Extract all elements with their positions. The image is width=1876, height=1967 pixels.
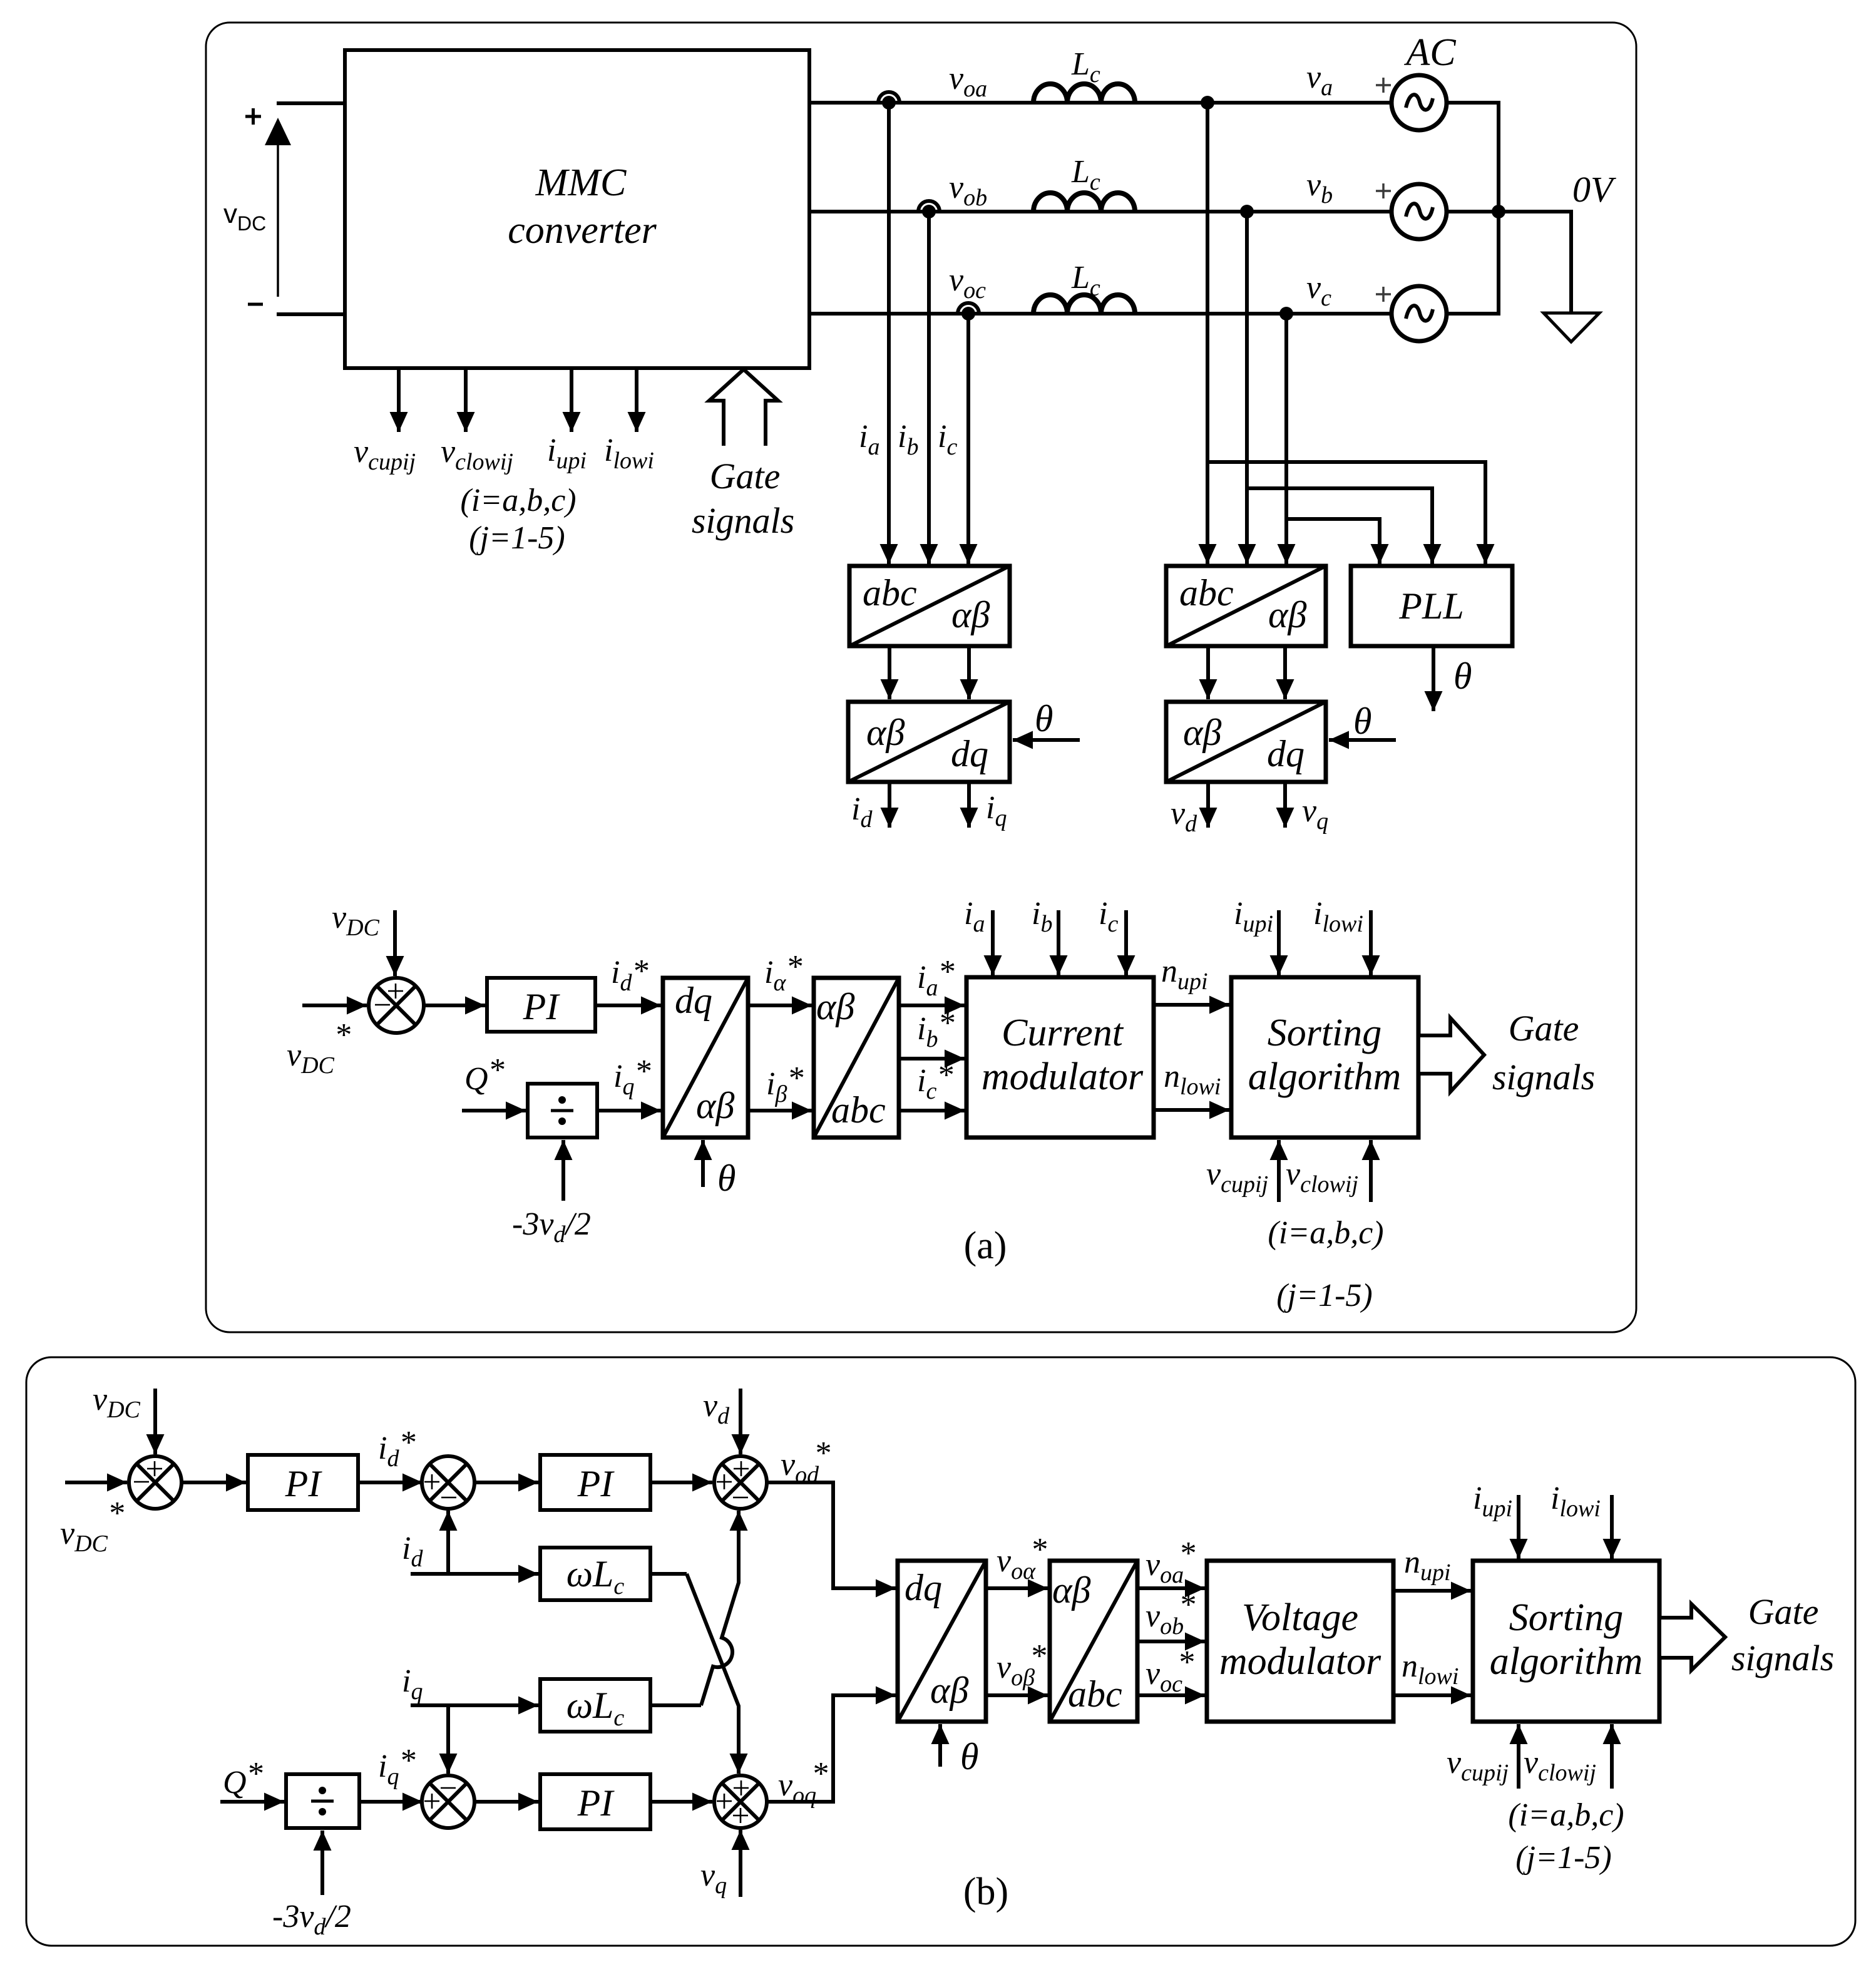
MMC output arrow iupi	[570, 368, 573, 432]
block PI b3	[540, 1774, 650, 1829]
svg-text:θ: θ	[1035, 698, 1053, 739]
wire sum to PI b1	[182, 1481, 246, 1484]
panel (b) border	[26, 1357, 1855, 1946]
wire B3 to dq b	[767, 1482, 870, 1588]
node bus B	[1492, 205, 1505, 218]
svg-text:(i=a,b,c): (i=a,b,c)	[1268, 1215, 1383, 1251]
svg-text:-3vd/2: -3vd/2	[512, 1206, 591, 1248]
wire vc to PLL	[1286, 519, 1380, 529]
wire ic into CM	[1124, 910, 1128, 975]
wire -3vd2 b	[320, 1831, 324, 1895]
wire vobetaref	[986, 1693, 1048, 1697]
wire ibref a	[899, 1057, 965, 1061]
plus sign source C	[1376, 287, 1391, 302]
svg-text:PI: PI	[285, 1463, 323, 1504]
svg-text:αβ: αβ	[816, 986, 854, 1027]
MMC output arrow vcupij	[397, 368, 401, 432]
MMC output arrow ilowi	[635, 368, 638, 432]
wire vobref	[1137, 1640, 1205, 1643]
svg-text:Voltage: Voltage	[1242, 1596, 1358, 1639]
svg-text:αβ: αβ	[930, 1670, 968, 1711]
wire vq into B4	[739, 1830, 742, 1897]
wire ib sense	[927, 212, 931, 564]
svg-text:Sorting: Sorting	[1268, 1012, 1382, 1054]
svg-text:αβ: αβ	[866, 712, 905, 753]
summing junction B2	[422, 1456, 474, 1509]
wire ib into CM	[1057, 910, 1060, 975]
svg-text:θ: θ	[960, 1736, 978, 1777]
block PLL	[1351, 566, 1512, 646]
wire ilowi into SA b	[1610, 1495, 1614, 1559]
svg-text:abc: abc	[1068, 1673, 1122, 1715]
MMC output arrow vclowij	[464, 368, 468, 432]
summing junction B3	[714, 1456, 767, 1509]
wire source B to bus	[1447, 210, 1499, 213]
svg-text:Gate: Gate	[1748, 1591, 1819, 1632]
svg-text:θ: θ	[1353, 701, 1371, 742]
wire wLc1 cross to B4	[650, 1572, 687, 1576]
wire Qref b	[220, 1800, 284, 1804]
svg-text:αβ: αβ	[696, 1085, 734, 1126]
wire ic sense	[966, 314, 970, 564]
svg-text:signals: signals	[1731, 1638, 1834, 1678]
gate signals block arrow b	[1659, 1604, 1725, 1670]
svg-text:signals: signals	[692, 500, 794, 541]
wire nupi b	[1393, 1589, 1471, 1593]
panel (a) border	[206, 23, 1636, 1332]
wire vclowij into SA a	[1369, 1140, 1373, 1202]
wire theta into ab-dq left	[1013, 738, 1080, 742]
block PI b2	[540, 1455, 650, 1510]
wire ilowi into SA a	[1369, 910, 1373, 975]
wire va sense	[1206, 103, 1209, 564]
wire iq down into B5	[446, 1705, 450, 1774]
wire vDCref into sum b1	[65, 1481, 127, 1484]
wire B5 to PI3	[474, 1800, 538, 1804]
wire iqref a	[597, 1109, 661, 1112]
svg-text:αβ: αβ	[1183, 712, 1221, 753]
wire voalpharef	[986, 1586, 1048, 1590]
block dq-ab b	[898, 1561, 986, 1722]
block PI a	[487, 978, 595, 1032]
block divide a	[528, 1084, 597, 1138]
node phase A	[1201, 96, 1214, 110]
node phase B	[1240, 205, 1254, 218]
current sensor phase C	[958, 303, 979, 321]
svg-text:(i=a,b,c): (i=a,b,c)	[1508, 1797, 1624, 1833]
wire theta into dq b	[938, 1724, 942, 1767]
wire DC plus	[277, 101, 345, 105]
svg-text:(j=1-5): (j=1-5)	[469, 520, 565, 556]
wire iupi into SA b	[1517, 1495, 1520, 1559]
wire phase A	[809, 101, 1392, 105]
gate signals block arrow a	[1418, 1018, 1484, 1092]
wire PLL theta out	[1432, 646, 1435, 711]
wire nupi a	[1154, 1003, 1229, 1007]
svg-text:θ: θ	[717, 1158, 736, 1199]
svg-text:PI: PI	[523, 986, 561, 1027]
block wLc1	[540, 1548, 650, 1600]
wire id out	[888, 782, 891, 828]
wire id up into B2	[446, 1511, 450, 1574]
wire vq out	[1283, 782, 1287, 828]
svg-text:(i=a,b,c): (i=a,b,c)	[460, 483, 576, 518]
plus sign source A	[1376, 78, 1391, 93]
svg-text:-3vd/2: -3vd/2	[272, 1899, 351, 1940]
svg-text:Gate: Gate	[710, 456, 781, 496]
plus sign DC	[245, 108, 261, 125]
block sorting algorithm b	[1473, 1561, 1659, 1722]
wire Qref a	[462, 1109, 526, 1112]
wire sum to PI a	[424, 1004, 485, 1007]
svg-text:(a): (a)	[964, 1225, 1007, 1267]
svg-text:abc: abc	[831, 1089, 886, 1131]
wire ibeta down	[967, 646, 971, 699]
block ab-abc a	[814, 978, 899, 1138]
svg-text:abc: abc	[1179, 572, 1234, 614]
AC source vc	[1392, 286, 1447, 341]
wire iq out	[967, 782, 971, 828]
wire voaref	[1137, 1586, 1205, 1590]
wire phase B	[809, 210, 1392, 213]
svg-text:dq: dq	[951, 733, 988, 774]
block wLc2	[540, 1679, 650, 1732]
wire vc sense	[1284, 314, 1288, 564]
wire vb to PLL	[1247, 488, 1432, 529]
block ab-abc b	[1050, 1561, 1137, 1722]
summing junction B4	[714, 1775, 767, 1828]
wire ialpha down	[888, 646, 891, 699]
wire nlowi b	[1393, 1693, 1471, 1697]
wire DC minus	[277, 312, 345, 316]
wire iupi into SA a	[1277, 910, 1281, 975]
wire PI3 to B4	[650, 1800, 712, 1804]
plus sign source B	[1376, 183, 1391, 198]
wire idref b	[358, 1481, 423, 1484]
wire vd out	[1206, 782, 1210, 828]
wire theta into dq-ab a	[701, 1140, 705, 1187]
svg-text:PLL: PLL	[1398, 585, 1463, 627]
svg-text:αβ: αβ	[1268, 594, 1306, 635]
inductor Lc phase A	[1033, 84, 1135, 103]
svg-text:Sorting: Sorting	[1509, 1596, 1624, 1639]
svg-text:(b): (b)	[963, 1871, 1008, 1913]
wire vDC into sum a	[393, 910, 397, 976]
wire iaref a	[899, 1004, 965, 1007]
wire ialpharef a	[748, 1004, 812, 1007]
wire 0V	[1499, 212, 1571, 313]
svg-text:AC: AC	[1403, 31, 1456, 74]
wire idref a	[595, 1004, 661, 1007]
wire -3vd2 a	[561, 1140, 565, 1201]
wire nlowi a	[1154, 1108, 1229, 1112]
current sensor phase B	[918, 201, 940, 218]
block sorting algorithm a	[1231, 977, 1418, 1138]
ground	[1544, 313, 1599, 342]
node phase C	[1279, 307, 1293, 321]
svg-text:Gate: Gate	[1509, 1008, 1579, 1049]
block dq-ab a	[663, 978, 748, 1138]
svg-text:0V: 0V	[1572, 169, 1617, 210]
wire ia into CM	[991, 910, 995, 975]
MMC converter block	[345, 50, 809, 368]
svg-text:θ: θ	[1453, 655, 1472, 697]
wire vcupij into SA b	[1517, 1724, 1520, 1789]
wire theta into ab-dq right	[1329, 738, 1396, 742]
minus sign DC	[248, 303, 263, 306]
AC source va	[1392, 75, 1447, 130]
block divide b	[286, 1774, 359, 1828]
svg-text:dq: dq	[1267, 733, 1304, 774]
svg-text:dq: dq	[675, 980, 712, 1021]
wire icref a	[899, 1109, 965, 1112]
svg-text:dq: dq	[905, 1567, 942, 1608]
wire B2 to PI2	[474, 1481, 538, 1484]
svg-text:PI: PI	[577, 1782, 615, 1824]
wire ia sense	[887, 103, 891, 564]
vDC reference arrow	[265, 118, 291, 297]
summing junction B5	[422, 1775, 474, 1828]
wire vcupij into SA a	[1277, 1140, 1281, 1202]
svg-text:MMC: MMC	[535, 162, 627, 204]
block voltage modulator	[1207, 1561, 1393, 1722]
wire id feed b	[411, 1572, 538, 1576]
wire iq feed b	[411, 1703, 538, 1707]
wire PI2 to B3	[650, 1481, 712, 1484]
AC source vb	[1392, 184, 1447, 239]
svg-text:αβ: αβ	[1052, 1569, 1090, 1611]
wire va to PLL	[1207, 462, 1485, 529]
block PI b1	[248, 1455, 358, 1510]
inductor Lc phase B	[1033, 193, 1135, 212]
block ab-dq right	[1166, 702, 1326, 782]
svg-text:(j=1-5): (j=1-5)	[1276, 1278, 1373, 1313]
wire vclowij into SA b	[1610, 1724, 1614, 1789]
wire vd into B3	[739, 1389, 742, 1454]
svg-text:abc: abc	[863, 572, 917, 614]
wire B4 to dq b	[767, 1695, 870, 1802]
wire vb sense	[1245, 212, 1249, 564]
svg-text:modulator: modulator	[1219, 1640, 1381, 1683]
svg-text:αβ: αβ	[951, 594, 990, 635]
summing junction S1a	[369, 978, 424, 1033]
svg-text:PI: PI	[577, 1463, 615, 1504]
svg-text:signals: signals	[1492, 1057, 1595, 1097]
block current modulator	[966, 977, 1154, 1138]
svg-text:algorithm: algorithm	[1248, 1055, 1402, 1098]
svg-text:converter: converter	[508, 209, 657, 252]
svg-text:modulator: modulator	[982, 1055, 1144, 1098]
block abc-ab right	[1166, 566, 1326, 646]
wire vocref	[1137, 1693, 1205, 1697]
svg-text:(j=1-5): (j=1-5)	[1515, 1840, 1612, 1876]
svg-text:algorithm: algorithm	[1490, 1640, 1643, 1683]
inductor Lc phase C	[1033, 295, 1135, 314]
wire AC right bus	[1447, 103, 1499, 314]
block abc-ab left	[849, 566, 1010, 646]
wire divide to B5	[359, 1800, 423, 1804]
wire wLc2 cross to B3 with hop	[650, 1703, 701, 1707]
svg-text:Current: Current	[1002, 1012, 1124, 1054]
wire valpha down	[1206, 646, 1210, 699]
current sensor phase A	[878, 92, 900, 110]
wire ibetaref a	[748, 1109, 812, 1112]
wire vDCref into sum a	[302, 1004, 367, 1007]
summing junction B1	[129, 1456, 182, 1509]
wire vDC into sum b1	[153, 1389, 157, 1454]
wire vbeta down	[1283, 646, 1287, 699]
block ab-dq left	[848, 702, 1010, 782]
gate signals arrow into MMC	[709, 369, 778, 446]
wire phase C	[809, 312, 1392, 316]
